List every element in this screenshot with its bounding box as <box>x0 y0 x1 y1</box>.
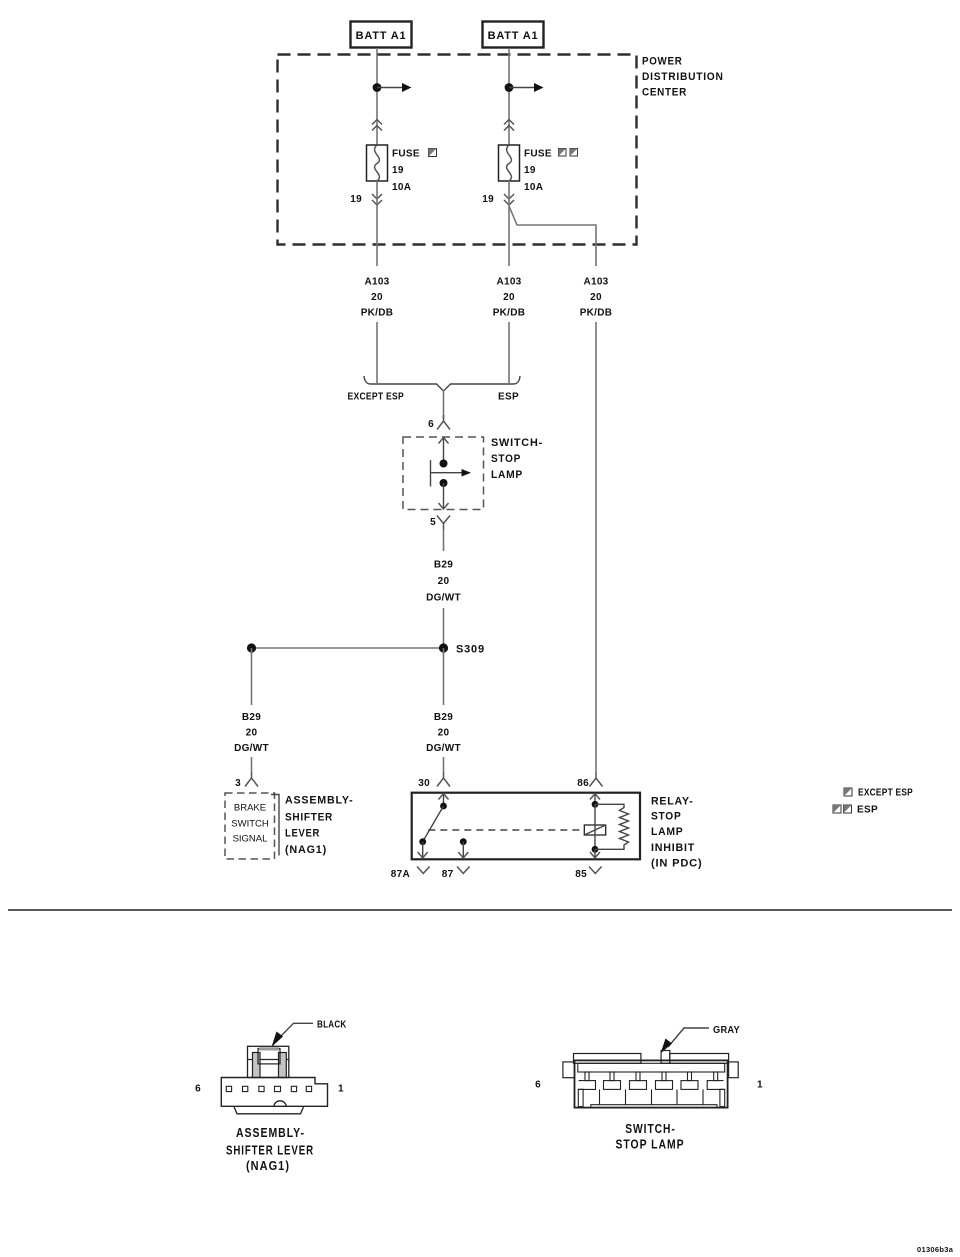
svg-text:A103: A103 <box>496 277 521 288</box>
svg-text:6: 6 <box>428 419 434 430</box>
svg-text:19: 19 <box>482 194 494 205</box>
svg-text:1: 1 <box>338 1084 344 1095</box>
svg-text:20: 20 <box>438 728 450 739</box>
svg-text:19: 19 <box>524 165 536 176</box>
svg-text:5: 5 <box>430 517 436 528</box>
svg-text:PK/DB: PK/DB <box>361 308 394 319</box>
svg-text:ASSEMBLY-: ASSEMBLY- <box>285 795 354 807</box>
svg-text:ESP: ESP <box>857 805 878 816</box>
svg-text:SHIFTER LEVER: SHIFTER LEVER <box>226 1143 314 1158</box>
svg-text:RELAY-: RELAY- <box>651 796 694 808</box>
svg-text:19: 19 <box>350 194 362 205</box>
svg-text:30: 30 <box>418 778 430 789</box>
svg-text:ASSEMBLY-: ASSEMBLY- <box>236 1125 305 1140</box>
svg-text:87A: 87A <box>391 869 410 880</box>
svg-text:(IN PDC): (IN PDC) <box>651 858 703 870</box>
svg-text:FUSE: FUSE <box>524 149 552 160</box>
svg-text:B29: B29 <box>434 560 453 571</box>
svg-text:SIGNAL: SIGNAL <box>233 834 268 845</box>
svg-text:FUSE: FUSE <box>392 149 420 160</box>
svg-text:BRAKE: BRAKE <box>234 803 266 814</box>
svg-text:EXCEPT ESP: EXCEPT ESP <box>858 788 913 799</box>
svg-text:POWER: POWER <box>642 56 683 68</box>
svg-text:GRAY: GRAY <box>713 1025 740 1036</box>
svg-text:6: 6 <box>195 1084 201 1095</box>
svg-text:STOP LAMP: STOP LAMP <box>616 1137 685 1152</box>
svg-text:INHIBIT: INHIBIT <box>651 842 695 854</box>
svg-text:3: 3 <box>235 778 241 789</box>
svg-text:19: 19 <box>392 165 404 176</box>
svg-text:DISTRIBUTION: DISTRIBUTION <box>642 71 724 83</box>
svg-text:STOP: STOP <box>491 453 521 465</box>
svg-text:A103: A103 <box>364 277 389 288</box>
svg-text:BATT A1: BATT A1 <box>356 30 407 42</box>
svg-text:10A: 10A <box>524 182 543 193</box>
svg-text:1: 1 <box>757 1080 763 1091</box>
svg-text:BATT A1: BATT A1 <box>488 30 539 42</box>
svg-text:A103: A103 <box>583 277 608 288</box>
svg-text:6: 6 <box>535 1080 541 1091</box>
svg-text:B29: B29 <box>242 712 261 723</box>
svg-text:SWITCH-: SWITCH- <box>625 1121 676 1136</box>
svg-text:SHIFTER: SHIFTER <box>285 812 333 824</box>
svg-text:01306b3a: 01306b3a <box>917 1245 954 1254</box>
svg-text:PK/DB: PK/DB <box>493 308 526 319</box>
svg-text:PK/DB: PK/DB <box>580 308 613 319</box>
svg-text:SWITCH: SWITCH <box>231 819 269 830</box>
svg-text:B29: B29 <box>434 712 453 723</box>
svg-text:LEVER: LEVER <box>285 828 320 840</box>
svg-text:20: 20 <box>590 292 602 303</box>
svg-text:S309: S309 <box>456 644 485 656</box>
svg-text:87: 87 <box>442 869 454 880</box>
svg-text:CENTER: CENTER <box>642 87 687 99</box>
svg-text:85: 85 <box>575 869 587 880</box>
svg-text:DG/WT: DG/WT <box>234 743 269 754</box>
svg-text:DG/WT: DG/WT <box>426 743 461 754</box>
svg-text:BLACK: BLACK <box>317 1020 347 1031</box>
svg-text:LAMP: LAMP <box>491 469 523 481</box>
svg-text:20: 20 <box>438 576 450 587</box>
svg-text:20: 20 <box>371 292 383 303</box>
svg-text:ESP: ESP <box>498 392 519 403</box>
svg-text:LAMP: LAMP <box>651 826 684 838</box>
svg-text:20: 20 <box>246 728 258 739</box>
svg-text:EXCEPT ESP: EXCEPT ESP <box>348 392 405 403</box>
svg-text:20: 20 <box>503 292 515 303</box>
svg-text:86: 86 <box>577 778 589 789</box>
svg-text:DG/WT: DG/WT <box>426 593 461 604</box>
svg-text:(NAG1): (NAG1) <box>285 844 327 856</box>
svg-text:STOP: STOP <box>651 811 682 823</box>
svg-text:10A: 10A <box>392 182 411 193</box>
svg-text:(NAG1): (NAG1) <box>246 1158 290 1173</box>
svg-text:SWITCH-: SWITCH- <box>491 437 543 449</box>
